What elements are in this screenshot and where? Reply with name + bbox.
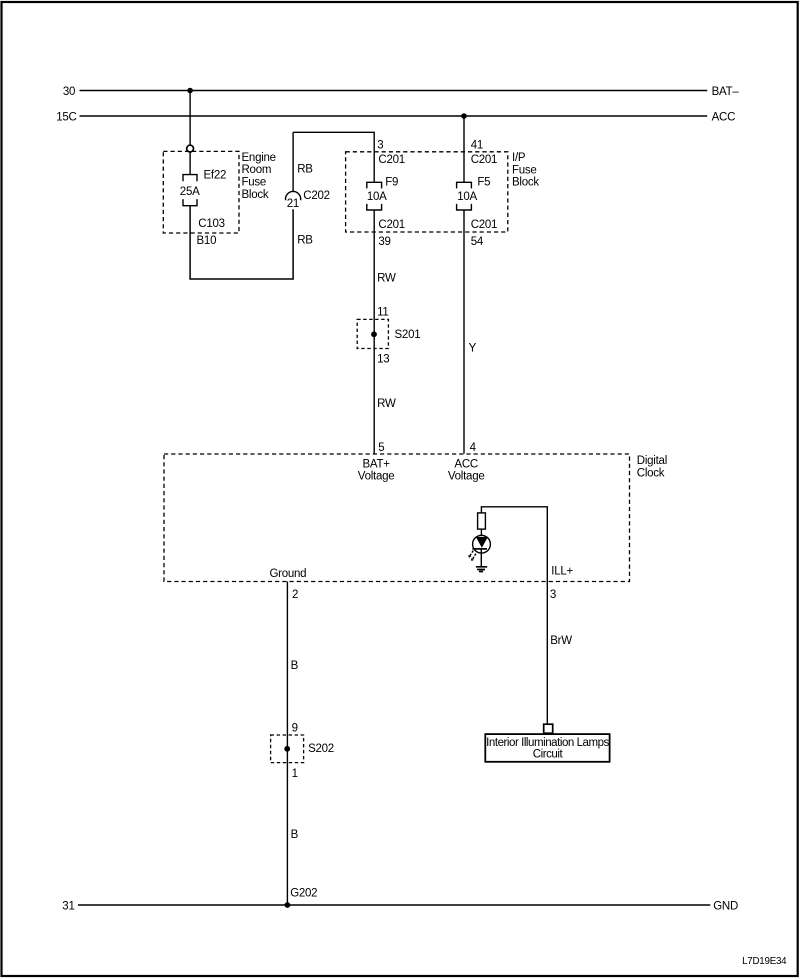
svg-text:3: 3 bbox=[377, 139, 383, 151]
svg-text:RW: RW bbox=[377, 273, 396, 285]
wire bus 15C (ACC) bbox=[80, 115, 708, 117]
svg-text:2: 2 bbox=[292, 589, 298, 601]
svg-text:21: 21 bbox=[287, 198, 299, 210]
splice S201 dot bbox=[371, 331, 377, 337]
svg-text:DigitalClock: DigitalClock bbox=[637, 455, 667, 479]
svg-text:4: 4 bbox=[470, 442, 477, 454]
ground symbol bbox=[476, 567, 487, 572]
svg-text:1: 1 bbox=[292, 768, 298, 780]
wire clock pin 3 to interior illumination lamps bbox=[546, 582, 548, 725]
connector C202 half circle bbox=[286, 191, 301, 200]
wire F9 pin 39 to clock pin 5 through S201 bbox=[373, 210, 375, 454]
LED cathode bar bbox=[472, 548, 487, 550]
wire resistor to LED bbox=[480, 529, 482, 536]
wire F5 pin 54 to clock pin 4 bbox=[463, 210, 465, 454]
svg-text:L7D19E34: L7D19E34 bbox=[742, 956, 787, 967]
svg-text:C201: C201 bbox=[471, 154, 498, 166]
svg-text:B10: B10 bbox=[197, 235, 217, 247]
wire into C202 from above bbox=[292, 132, 294, 191]
splice S202 dot bbox=[284, 746, 290, 752]
wire bus 30 down to fuse block terminal bbox=[189, 91, 191, 146]
svg-text:54: 54 bbox=[471, 236, 484, 248]
LED triangle bbox=[476, 537, 488, 548]
wire bus 31 (GND) bbox=[78, 904, 710, 906]
wire terminal to fuse Ef22 bbox=[189, 152, 191, 174]
Digital Clock outline bbox=[164, 454, 630, 582]
svg-text:41: 41 bbox=[471, 139, 483, 151]
light emission arrows bbox=[469, 551, 476, 561]
svg-text:C201: C201 bbox=[471, 219, 498, 231]
svg-text:13: 13 bbox=[377, 353, 389, 365]
Interior Illumination Lamps Circuit box bbox=[485, 734, 609, 762]
svg-text:Y: Y bbox=[469, 342, 477, 354]
Engine Room Fuse Block outline bbox=[163, 151, 239, 233]
svg-text:G202: G202 bbox=[290, 887, 317, 899]
svg-text:RB: RB bbox=[297, 235, 313, 247]
junction dot on bus 30 bbox=[187, 88, 193, 94]
fuse F9 10A bbox=[367, 182, 382, 210]
internal wire LED branch to ILL pin bbox=[481, 507, 547, 582]
svg-text:ILL+: ILL+ bbox=[551, 566, 573, 578]
fuse F5 10A bbox=[457, 182, 472, 210]
svg-text:GND: GND bbox=[713, 900, 738, 912]
svg-text:10A: 10A bbox=[367, 191, 387, 203]
LED illumination lamp circle bbox=[473, 535, 491, 553]
svg-text:Ground: Ground bbox=[269, 568, 306, 580]
svg-text:31: 31 bbox=[62, 900, 74, 912]
svg-text:11: 11 bbox=[377, 307, 388, 319]
svg-text:9: 9 bbox=[292, 723, 298, 735]
svg-text:30: 30 bbox=[63, 86, 75, 98]
wire bus 30 (BAT-) bbox=[80, 90, 708, 92]
svg-text:3: 3 bbox=[550, 589, 556, 601]
svg-text:10A: 10A bbox=[457, 191, 477, 203]
fuse Ef22 25A bbox=[183, 175, 197, 206]
svg-text:C202: C202 bbox=[303, 190, 330, 202]
wire ACC bus down to fuse F5 bbox=[463, 116, 465, 182]
svg-text:C201: C201 bbox=[378, 154, 405, 166]
svg-text:B: B bbox=[291, 829, 299, 841]
svg-text:BAT–: BAT– bbox=[712, 86, 740, 98]
svg-text:C201: C201 bbox=[378, 219, 405, 231]
splice S201 outline bbox=[357, 319, 388, 348]
svg-text:S202: S202 bbox=[308, 743, 334, 755]
wire clock pin 2 to ground G202 through S202 bbox=[286, 582, 288, 906]
connector square to lamps circuit bbox=[544, 724, 553, 733]
svg-text:S201: S201 bbox=[395, 329, 421, 341]
I/P Fuse Block outline bbox=[346, 152, 508, 232]
splice S202 outline bbox=[271, 735, 304, 763]
ground junction dot G202 bbox=[285, 902, 291, 908]
svg-text:ACC: ACC bbox=[712, 112, 736, 124]
svg-text:F9: F9 bbox=[385, 176, 398, 188]
svg-text:5: 5 bbox=[378, 442, 384, 454]
junction dot on bus 15C bbox=[461, 113, 467, 119]
svg-text:B: B bbox=[291, 660, 299, 672]
svg-text:RB: RB bbox=[297, 163, 313, 175]
svg-text:BrW: BrW bbox=[550, 635, 572, 647]
wire fuse Ef22 to connector C202 bbox=[190, 206, 293, 279]
svg-text:39: 39 bbox=[378, 236, 390, 248]
connector terminal open circle bbox=[187, 145, 194, 152]
svg-text:F5: F5 bbox=[477, 176, 490, 188]
svg-text:25A: 25A bbox=[180, 186, 200, 198]
resistor (clock illumination) bbox=[478, 513, 486, 529]
wire C202 to I/P fuse block pin 3 bbox=[293, 132, 374, 182]
svg-text:BAT+Voltage: BAT+Voltage bbox=[358, 459, 395, 483]
svg-text:C103: C103 bbox=[198, 218, 225, 230]
svg-text:Ef22: Ef22 bbox=[204, 169, 227, 181]
svg-text:15C: 15C bbox=[56, 112, 76, 124]
svg-text:RW: RW bbox=[377, 398, 396, 410]
wire LED to internal ground bbox=[480, 549, 482, 566]
